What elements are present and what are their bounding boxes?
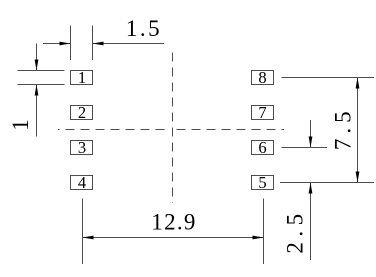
svg-text:4: 4 <box>78 173 86 192</box>
svg-text:12.9: 12.9 <box>151 209 196 234</box>
svg-text:3: 3 <box>78 138 86 157</box>
svg-text:7: 7 <box>258 103 266 122</box>
svg-text:1.5: 1.5 <box>126 16 162 41</box>
svg-text:5: 5 <box>258 173 266 192</box>
svg-text:1: 1 <box>8 119 33 131</box>
svg-text:1: 1 <box>78 68 86 87</box>
svg-text:8: 8 <box>258 68 266 87</box>
svg-text:2: 2 <box>78 103 86 122</box>
svg-text:2.5: 2.5 <box>282 208 307 253</box>
svg-text:6: 6 <box>258 138 266 157</box>
svg-text:7.5: 7.5 <box>330 106 355 150</box>
